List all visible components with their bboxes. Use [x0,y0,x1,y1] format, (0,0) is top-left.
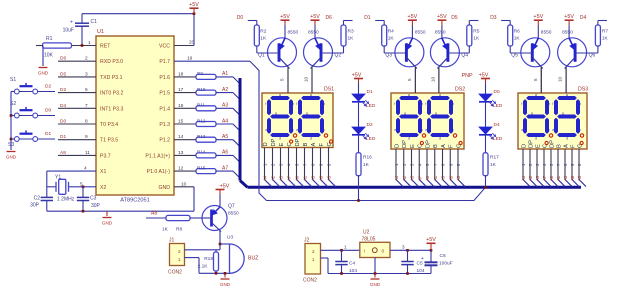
svg-text:E: E [279,143,285,147]
svg-text:10: 10 [558,76,563,82]
svg-text:+5V: +5V [437,14,447,20]
svg-text:F: F [570,144,576,148]
svg-text:R7: R7 [602,29,608,35]
svg-text:+5V: +5V [564,14,574,20]
svg-text:b: b [579,102,581,106]
svg-text:GND: GND [220,282,231,287]
svg-text:F: F [449,144,455,148]
svg-text:E: E [410,144,416,148]
svg-text:12: 12 [178,166,184,172]
svg-text:BUZ: BUZ [248,256,258,262]
svg-text:A2: A2 [402,175,407,181]
svg-text:a: a [566,93,568,97]
svg-text:d: d [535,137,537,141]
svg-text:A8: A8 [319,175,324,181]
svg-text:R13: R13 [197,134,206,139]
svg-text:Q3: Q3 [385,53,392,59]
svg-text:A6: A6 [222,150,228,156]
svg-text:1K: 1K [473,36,480,42]
svg-text:A8: A8 [60,150,66,156]
svg-text:f: f [552,102,553,106]
svg-text:+5V: +5V [352,72,362,78]
svg-text:PNP: PNP [462,73,473,79]
svg-text:e: e [296,128,298,132]
svg-text:10: 10 [181,181,187,187]
svg-text:11: 11 [85,150,90,156]
svg-text:D1: D1 [45,131,51,137]
svg-text:10uF: 10uF [63,28,74,34]
svg-text:R9: R9 [197,71,203,76]
svg-text:A2: A2 [271,175,276,181]
svg-text:1K: 1K [602,36,609,42]
svg-text:D2: D2 [60,87,66,93]
svg-text:e: e [265,128,267,132]
svg-text:c: c [548,128,550,132]
svg-text:+5V: +5V [533,14,543,20]
svg-text:DP: DP [528,140,534,148]
svg-text:GND: GND [370,282,381,287]
svg-text:B: B [556,144,562,148]
svg-text:d: d [408,137,410,141]
svg-text:19: 19 [187,56,193,62]
svg-text:Y1: Y1 [55,174,61,180]
svg-text:B: B [303,143,309,147]
svg-text:7: 7 [85,103,88,109]
svg-text:A7: A7 [222,165,228,171]
svg-text:D6: D6 [60,56,66,62]
svg-text:S3: S3 [8,142,14,148]
svg-text:DS3: DS3 [578,87,588,93]
svg-text:b: b [548,102,550,106]
svg-text:g: g [562,111,564,115]
svg-text:1K: 1K [514,36,521,42]
svg-text:13: 13 [178,150,184,156]
svg-text:+: + [421,256,424,262]
svg-text:+5V: +5V [310,14,320,20]
svg-text:P1.3: P1.3 [159,122,170,128]
svg-text:R17: R17 [490,155,499,161]
svg-text:A5: A5 [577,175,582,181]
svg-text:+5V: +5V [426,237,436,243]
svg-text:f: f [296,102,297,106]
svg-text:f: f [521,102,522,106]
svg-text:104: 104 [417,268,425,274]
svg-text:D: D [263,142,269,146]
svg-text:+5V: +5V [189,2,199,8]
svg-text:30P: 30P [30,203,40,209]
svg-text:D5: D5 [60,71,66,77]
svg-text:B: B [433,144,439,148]
svg-text:b: b [323,102,325,106]
svg-text:R14: R14 [197,150,206,155]
svg-text:D0: D0 [237,15,244,21]
svg-text:1: 1 [88,40,91,46]
svg-text:+5V: +5V [479,72,489,78]
svg-text:J2: J2 [304,238,310,244]
svg-text:P1.1 A1(+): P1.1 A1(+) [145,153,170,159]
svg-text:A2: A2 [222,87,228,93]
svg-text:A7: A7 [542,175,547,181]
svg-text:0: 0 [382,249,385,255]
svg-text:A5: A5 [456,175,461,181]
svg-text:1K: 1K [162,227,169,233]
svg-text:Q5: Q5 [511,53,518,59]
svg-text:GND: GND [102,221,113,226]
svg-text:A4: A4 [394,175,399,181]
svg-text:78L05: 78L05 [362,237,376,243]
svg-text:e: e [394,128,396,132]
svg-text:e: e [521,128,523,132]
svg-text:g: g [435,111,437,115]
svg-text:A: A [563,144,569,148]
svg-text:R5: R5 [473,29,479,35]
svg-text:D1: D1 [367,89,373,95]
svg-text:A: A [311,143,317,147]
svg-text:R15: R15 [197,165,206,170]
svg-text:LED: LED [493,103,503,109]
svg-text:R18: R18 [204,256,213,262]
svg-text:INT1 P3.3: INT1 P3.3 [100,106,123,112]
svg-text:DS2: DS2 [455,87,465,93]
svg-text:Q1: Q1 [258,53,265,59]
svg-text:A5: A5 [410,175,415,181]
svg-text:2: 2 [178,249,181,254]
svg-text:RXD P3.0: RXD P3.0 [100,59,123,65]
svg-text:8: 8 [85,119,88,125]
svg-text:A7: A7 [287,175,292,181]
svg-text:D: D [521,144,527,148]
svg-text:DP: DP [271,138,277,146]
svg-text:Q4: Q4 [461,53,468,59]
svg-text:1K: 1K [490,162,497,168]
svg-text:A1: A1 [556,175,561,181]
svg-text:D1: D1 [60,134,66,140]
svg-text:LED: LED [366,103,376,109]
svg-text:DP: DP [549,140,555,148]
svg-text:1K: 1K [363,162,370,168]
svg-text:J1: J1 [169,238,175,244]
svg-text:9: 9 [85,134,88,140]
svg-text:R16: R16 [363,155,372,161]
svg-text:P1.2: P1.2 [159,138,170,144]
svg-text:C2: C2 [34,196,41,202]
svg-text:Q7: Q7 [228,204,235,210]
svg-text:T0 P3.4: T0 P3.4 [100,122,118,128]
svg-text:R6: R6 [514,29,520,35]
svg-text:15: 15 [178,119,184,125]
svg-text:A8: A8 [448,175,453,181]
svg-text:2: 2 [85,56,88,62]
svg-text:18: 18 [178,71,184,77]
svg-text:D4: D4 [60,103,66,109]
svg-text:+5V: +5V [280,14,290,20]
svg-text:A5: A5 [279,175,284,181]
svg-text:LED: LED [366,136,376,142]
svg-text:A2: A2 [528,175,533,181]
svg-text:a: a [279,93,281,97]
svg-text:P1.4: P1.4 [159,106,170,112]
svg-text:D5: D5 [451,15,458,21]
svg-text:DS1: DS1 [324,87,334,93]
svg-text:X1: X1 [100,169,106,175]
svg-text:E: E [535,144,541,148]
svg-text:c: c [579,128,581,132]
svg-text:e: e [552,128,554,132]
svg-text:+5V: +5V [220,183,230,189]
svg-text:TXD P3.1: TXD P3.1 [100,75,123,81]
svg-text:Q2: Q2 [335,53,342,59]
svg-text:D4: D4 [494,122,500,128]
svg-text:1K: 1K [260,36,267,42]
svg-text:10: 10 [430,76,435,82]
svg-text:a: a [310,93,312,97]
svg-text:GND: GND [38,71,49,76]
svg-text:+5V: +5V [408,14,418,20]
svg-text:R8: R8 [176,227,182,233]
svg-text:g: g [404,111,406,115]
svg-text:100uF: 100uF [439,261,453,267]
svg-text:A5: A5 [327,175,332,181]
svg-text:5: 5 [533,78,538,81]
svg-text:g: g [531,111,533,115]
svg-text:d: d [566,137,568,141]
svg-text:A6: A6 [549,175,554,181]
svg-text:a: a [408,93,410,97]
svg-text:10: 10 [304,76,309,82]
svg-text:P1.6: P1.6 [159,75,170,81]
svg-text:f: f [425,102,426,106]
svg-text:C1: C1 [91,19,98,25]
svg-text:INT0 P3.2: INT0 P3.2 [100,91,123,97]
svg-text:2.1K: 2.1K [198,264,209,270]
svg-text:A6: A6 [295,175,300,181]
svg-text:Q6: Q6 [589,53,596,59]
svg-text:D3: D3 [490,15,497,21]
svg-text:A8: A8 [151,211,157,217]
svg-text:2: 2 [312,249,315,254]
svg-text:CON2: CON2 [303,278,317,284]
svg-text:CON2: CON2 [168,270,182,276]
svg-text:R11: R11 [197,103,206,108]
svg-text:VCC: VCC [159,44,170,50]
svg-text:DP: DP [402,140,408,148]
svg-text:RET: RET [100,44,111,50]
svg-text:1: 1 [344,245,347,250]
svg-text:8550: 8550 [541,30,552,36]
svg-text:c: c [323,128,325,132]
svg-text:R4: R4 [388,29,394,35]
svg-text:U3: U3 [227,235,233,241]
svg-text:+: + [70,20,73,26]
svg-text:P1.5: P1.5 [159,91,170,97]
svg-text:R12: R12 [197,118,206,123]
svg-text:d: d [310,137,312,141]
svg-text:1K: 1K [388,36,395,42]
svg-text:D1: D1 [364,15,371,21]
svg-text:1 2MHz: 1 2MHz [57,196,75,202]
svg-text:A3: A3 [222,103,228,109]
svg-text:c: c [292,128,294,132]
svg-text:D: D [394,144,400,148]
svg-text:f: f [265,102,266,106]
svg-text:P1.7: P1.7 [159,59,170,65]
svg-text:17: 17 [178,87,184,93]
svg-text:AT89C2051: AT89C2051 [120,198,149,204]
svg-text:I: I [364,249,365,255]
svg-text:5: 5 [407,78,412,81]
svg-text:A1: A1 [433,175,438,181]
svg-text:S1: S1 [10,77,16,83]
svg-text:1K: 1K [348,36,355,42]
svg-text:6: 6 [85,87,88,93]
svg-text:R2: R2 [260,29,266,35]
svg-text:D0: D0 [494,89,500,95]
svg-text:D4: D4 [580,15,587,21]
svg-text:C4: C4 [349,261,355,267]
svg-text:X2: X2 [100,185,106,191]
svg-text:d: d [439,137,441,141]
svg-text:8550: 8550 [562,30,573,36]
svg-text:U2: U2 [363,230,370,236]
svg-text:10K: 10K [44,53,54,59]
svg-text:8550: 8550 [288,30,299,36]
svg-text:A6: A6 [425,175,430,181]
svg-text:A4: A4 [222,118,228,124]
svg-text:c: c [421,128,423,132]
svg-text:4: 4 [84,166,87,172]
svg-text:8550: 8550 [228,211,239,217]
svg-text:D0: D0 [60,119,66,125]
svg-text:S2: S2 [10,101,16,107]
svg-text:a: a [535,93,537,97]
svg-text:P1.0 A1(-): P1.0 A1(-) [147,169,171,175]
svg-text:D2: D2 [367,122,373,128]
svg-text:8550: 8550 [308,30,319,36]
svg-text:A4: A4 [263,175,268,181]
svg-text:30P: 30P [91,203,101,209]
svg-text:1: 1 [178,257,181,262]
svg-text:d: d [279,137,281,141]
svg-text:A8: A8 [570,175,575,181]
svg-text:U1: U1 [97,29,104,35]
svg-text:GND: GND [6,155,17,160]
svg-text:R3: R3 [348,29,354,35]
svg-text:g: g [275,111,277,115]
svg-text:a: a [439,93,441,97]
svg-text:b: b [452,102,454,106]
svg-text:P3.7: P3.7 [100,153,111,159]
svg-text:g: g [306,111,308,115]
svg-text:A1: A1 [222,71,228,77]
svg-text:DP: DP [425,140,431,148]
svg-text:D0: D0 [45,108,51,114]
svg-text:D2: D2 [45,84,51,90]
svg-text:R10: R10 [197,87,206,92]
svg-text:16: 16 [178,103,184,109]
svg-text:A3: A3 [563,175,568,181]
svg-text:GND: GND [158,185,170,191]
svg-text:5: 5 [280,78,285,81]
svg-text:A3: A3 [311,175,316,181]
svg-text:LED: LED [493,136,503,142]
svg-text:A1: A1 [303,175,308,181]
svg-text:104: 104 [349,268,357,274]
svg-text:A4: A4 [521,175,526,181]
svg-text:A5: A5 [535,175,540,181]
svg-text:A: A [441,144,447,148]
svg-text:1: 1 [312,257,315,262]
svg-text:14: 14 [178,134,184,140]
svg-text:F: F [319,143,325,147]
svg-text:R1: R1 [46,36,53,42]
svg-text:DP: DP [295,138,301,146]
svg-text:8550: 8550 [415,30,426,36]
svg-text:f: f [394,102,395,106]
svg-text:8550: 8550 [435,30,446,36]
svg-text:C3: C3 [90,196,97,202]
svg-text:A5: A5 [222,134,228,140]
svg-text:D6: D6 [326,15,333,21]
svg-text:b: b [292,102,294,106]
svg-text:b: b [421,102,423,106]
svg-text:T1 P3.5: T1 P3.5 [100,138,118,144]
svg-text:3: 3 [85,71,88,77]
svg-text:c: c [452,128,454,132]
svg-text:C6: C6 [440,253,446,259]
svg-text:A7: A7 [417,175,422,181]
svg-text:e: e [425,128,427,132]
svg-text:3: 3 [402,245,405,250]
svg-text:A3: A3 [441,175,446,181]
